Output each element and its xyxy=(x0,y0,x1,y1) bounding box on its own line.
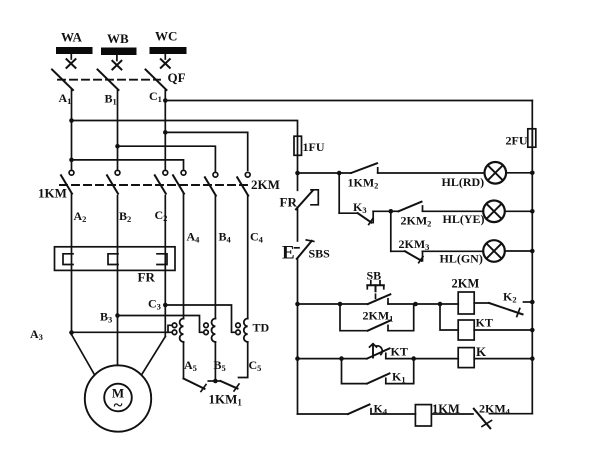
lamp HL(YE) xyxy=(483,201,505,223)
busbar WB xyxy=(101,31,137,55)
contactor 2KM main contact B xyxy=(205,172,218,195)
svg-text:SBS: SBS xyxy=(309,247,331,261)
wire left rail SBS to bottom xyxy=(297,259,299,414)
contact 1KM2 NO xyxy=(351,163,378,173)
relay contact K4 NO xyxy=(348,405,371,415)
node left rail row1 xyxy=(295,302,300,307)
wire 2KM3 to lamp GN xyxy=(423,250,484,252)
svg-text:QF: QF xyxy=(168,70,186,85)
wire C3 tap to TD coil3 xyxy=(165,305,235,332)
node C3 xyxy=(163,303,168,308)
node A3 xyxy=(69,330,74,335)
wire A3 to motor xyxy=(72,335,95,375)
relay contact K1 NO xyxy=(342,359,414,384)
wire 2KM3 branch vertical xyxy=(390,211,392,251)
node rail row2 xyxy=(530,356,535,361)
node rail KT xyxy=(530,328,535,333)
coil 2KM xyxy=(458,292,474,314)
wire 1KM2 to lamp RD xyxy=(378,172,485,174)
node 2KM2 branch xyxy=(389,209,394,214)
circuit breaker QF pole C xyxy=(146,54,170,170)
svg-text:WC: WC xyxy=(155,29,177,44)
wire A tap to control left rail xyxy=(72,121,298,137)
node B tap y146 xyxy=(115,144,120,149)
wire K3 branch vertical xyxy=(338,173,340,213)
busbar WC xyxy=(150,29,187,55)
svg-text:KT: KT xyxy=(391,345,408,359)
contactor 1KM1 star contact left xyxy=(184,379,207,392)
node K1 branch right xyxy=(411,356,416,361)
wire 1KM coil to 2KM4 xyxy=(431,413,473,415)
contact linkage dashed 1KM 2KM xyxy=(60,184,249,186)
node rail YE xyxy=(530,209,535,214)
wire A5 xyxy=(183,342,185,379)
node KT branch xyxy=(438,302,443,307)
svg-text:2KM1: 2KM1 xyxy=(363,309,394,324)
contactor 1KM main contact B xyxy=(107,170,120,193)
contactor 1KM main contact C xyxy=(155,170,168,193)
circuit breaker QF pole A xyxy=(52,54,76,170)
contactor 1KM main contact A xyxy=(61,170,74,193)
wire right rail xyxy=(531,101,533,414)
svg-text:KT: KT xyxy=(476,316,493,330)
svg-text:~: ~ xyxy=(114,396,123,415)
breaker QF linkage dashed xyxy=(58,79,160,81)
svg-text:E: E xyxy=(282,243,295,264)
contactor 1KM1 star contact right xyxy=(208,381,239,391)
svg-text:FR: FR xyxy=(138,270,156,285)
svg-text:HL(GN): HL(GN) xyxy=(440,251,483,265)
wire row2 to K coil xyxy=(386,358,458,360)
wire left rail FR to SBS xyxy=(297,209,299,241)
svg-text:2KM: 2KM xyxy=(452,277,480,291)
autotransformer TD winding 1 xyxy=(172,194,183,342)
fuse 2FU xyxy=(528,129,536,147)
svg-text:2KM: 2KM xyxy=(251,177,280,192)
node left rail 1KM2 row xyxy=(295,171,300,176)
pushbutton SB xyxy=(367,281,390,304)
wire lamp YE to rail xyxy=(505,210,533,212)
wire C5 xyxy=(239,342,248,378)
svg-text:TD: TD xyxy=(253,321,270,335)
emergency stop button SBS xyxy=(282,240,314,264)
node A tap y120 xyxy=(69,118,74,123)
svg-text:1KM: 1KM xyxy=(38,186,67,201)
node rail RD xyxy=(530,171,535,176)
wire B5 xyxy=(214,342,216,381)
autotransformer TD winding 2 xyxy=(204,196,216,342)
svg-text:1FU: 1FU xyxy=(303,140,325,154)
node K1 branch left xyxy=(339,356,344,361)
relay contact K2 NC xyxy=(474,302,532,317)
wire top line C1 to right rail xyxy=(165,100,532,102)
wire A tap to A4 branch xyxy=(72,160,184,170)
wire A3 tap to TD coil1 xyxy=(72,331,173,333)
coil 1KM xyxy=(415,405,431,426)
svg-text:FR: FR xyxy=(280,195,298,210)
wire row1 SB to coil xyxy=(388,303,458,305)
svg-text:HL(YE): HL(YE) xyxy=(443,212,485,226)
motor M xyxy=(85,365,151,431)
node rail row1 xyxy=(530,300,535,305)
wire KT branch xyxy=(440,304,458,330)
node A tap y160 xyxy=(69,158,74,163)
contactor 2KM main contact A xyxy=(173,170,186,193)
node C tap y132 xyxy=(163,130,168,135)
contact 2KM1 self-holding NO xyxy=(340,304,414,331)
wire lamp GN to rail xyxy=(505,250,533,252)
svg-text:1KM2: 1KM2 xyxy=(348,176,379,191)
node star point B5 xyxy=(213,379,218,384)
contact 2KM3 NO xyxy=(391,251,423,262)
node left rail row2 xyxy=(295,356,300,361)
contact 2KM2 NO xyxy=(391,202,423,212)
wire phase C to FR xyxy=(164,196,166,337)
wire row2 left xyxy=(298,358,368,360)
node B3 xyxy=(115,313,120,318)
svg-text:2FU: 2FU xyxy=(506,134,528,148)
contact 1KM2 row wire xyxy=(298,172,352,174)
coil K xyxy=(458,348,474,368)
node SB branch left xyxy=(338,302,343,307)
node 2KM1 branch right xyxy=(413,302,418,307)
svg-text:2KM3: 2KM3 xyxy=(399,237,430,252)
wire left rail fuse to FR xyxy=(297,155,299,190)
thermal contact FR NC xyxy=(296,190,318,210)
autotransformer TD winding 3 xyxy=(236,196,248,342)
lamp HL(GN) xyxy=(483,240,505,262)
contact 2KM4 NC xyxy=(474,409,533,429)
wire B tap to B4 branch xyxy=(118,146,216,172)
wire K coil to rail xyxy=(474,358,532,360)
relay contact K3 NO xyxy=(339,211,391,224)
contactor 2KM main contact C xyxy=(237,172,250,195)
svg-text:2KM2: 2KM2 xyxy=(401,214,432,229)
node 1KM2 branch xyxy=(337,171,342,176)
svg-text:K: K xyxy=(476,344,487,359)
wire C tap to C4 branch xyxy=(165,132,247,170)
busbar WA xyxy=(56,30,93,55)
fuse 1FU xyxy=(294,136,302,155)
svg-text:WA: WA xyxy=(61,30,83,45)
node rail GN xyxy=(530,249,535,254)
thermal relay FR heater box xyxy=(55,247,176,271)
circuit breaker QF pole B xyxy=(98,55,122,170)
wire 2KM2 to lamp YE xyxy=(423,210,484,212)
time relay contact KT delayed NO xyxy=(367,344,390,359)
coil KT xyxy=(458,320,474,340)
svg-text:1KM1: 1KM1 xyxy=(209,392,243,408)
wire row1 left xyxy=(298,303,368,305)
svg-text:HL(RD): HL(RD) xyxy=(442,175,485,189)
wire KT coil to rail xyxy=(474,329,532,331)
svg-text:SB: SB xyxy=(367,269,382,283)
wire phase B to FR xyxy=(117,196,119,366)
node C1 junction xyxy=(163,98,168,103)
wire bottom row left xyxy=(298,413,349,415)
wire B3 tap to TD coil2 xyxy=(118,316,204,333)
wire coil1 upper tap stub xyxy=(168,325,172,332)
wire phase A to FR xyxy=(71,194,73,335)
lamp HL(RD) xyxy=(485,162,507,184)
wire K4 to 1KM coil xyxy=(371,413,415,415)
svg-text:WB: WB xyxy=(107,31,129,46)
wire lamp RD to rail xyxy=(506,172,532,174)
wire C3 to motor xyxy=(142,337,166,375)
